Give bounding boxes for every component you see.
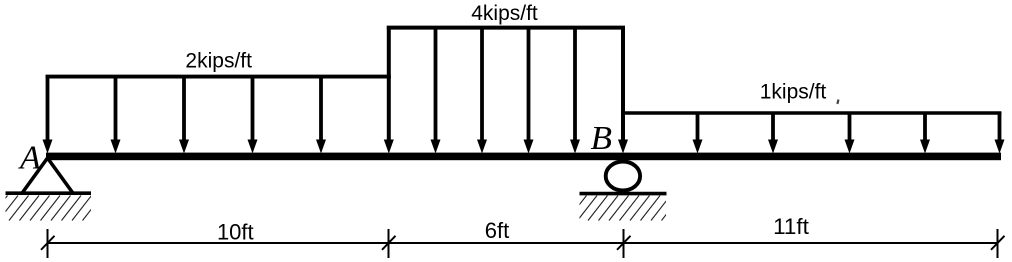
load w2 arrow 3 (477, 26, 487, 154)
svg-text:4kips/ft: 4kips/ft (471, 2, 538, 25)
load w3 arrow 4 (920, 112, 930, 154)
stray comma mark (836, 99, 839, 104)
load w2 arrow 4 (524, 26, 534, 154)
dimension slash at right end (991, 236, 1005, 250)
load w1 arrow 5 (316, 75, 326, 154)
support A ground line (6, 191, 92, 195)
load w1 arrow 2 (111, 75, 121, 154)
svg-text:10ft: 10ft (217, 220, 254, 245)
load w3 arrow 5 (right end of beam) (995, 112, 1005, 154)
svg-text:A: A (18, 140, 41, 177)
dimension extension tick at A (47, 229, 49, 258)
load w3 arrow 3 (845, 112, 855, 154)
dimension extension tick at B (623, 229, 625, 258)
svg-text:2kips/ft: 2kips/ft (185, 49, 252, 72)
load w1 arrow 1 (43, 75, 53, 154)
beam AB (46, 153, 1001, 161)
svg-text:1kips/ft: 1kips/ft (760, 80, 827, 103)
dimension line (48, 242, 998, 244)
support A pin triangle (23, 158, 73, 193)
load w2 arrow 6 (right edge, above support B) (618, 26, 628, 154)
load w2 arrow 1 (left edge) (384, 26, 394, 154)
load w1 arrow 3 (179, 75, 189, 154)
load w3 arrow 2 (768, 112, 778, 154)
svg-text:11ft: 11ft (773, 214, 810, 239)
support B ground hatching (567, 196, 681, 221)
load w2 arrow 2 (431, 26, 441, 154)
distributed load w1 top line (2kips/ft) (46, 75, 391, 79)
load w2 arrow 5 (570, 26, 580, 154)
svg-text:B: B (591, 120, 613, 157)
load w3 arrow 1 (693, 112, 703, 154)
distributed load w3 top line (1kips/ft) (623, 111, 1001, 115)
support B roller circle (606, 162, 640, 191)
dimension slash at x=10ft (382, 236, 396, 250)
support B ground line (580, 192, 667, 196)
dimension extension tick at x=10ft (388, 229, 390, 258)
svg-text:6ft: 6ft (485, 218, 509, 243)
load w1 arrow 4 (248, 75, 258, 154)
dimension slash at B (617, 236, 631, 250)
support A ground hatching (0, 196, 102, 221)
dimension slash at A (41, 236, 55, 250)
distributed load w2 top line (4kips/ft) (387, 26, 625, 30)
dimension extension tick at right end (997, 229, 999, 258)
